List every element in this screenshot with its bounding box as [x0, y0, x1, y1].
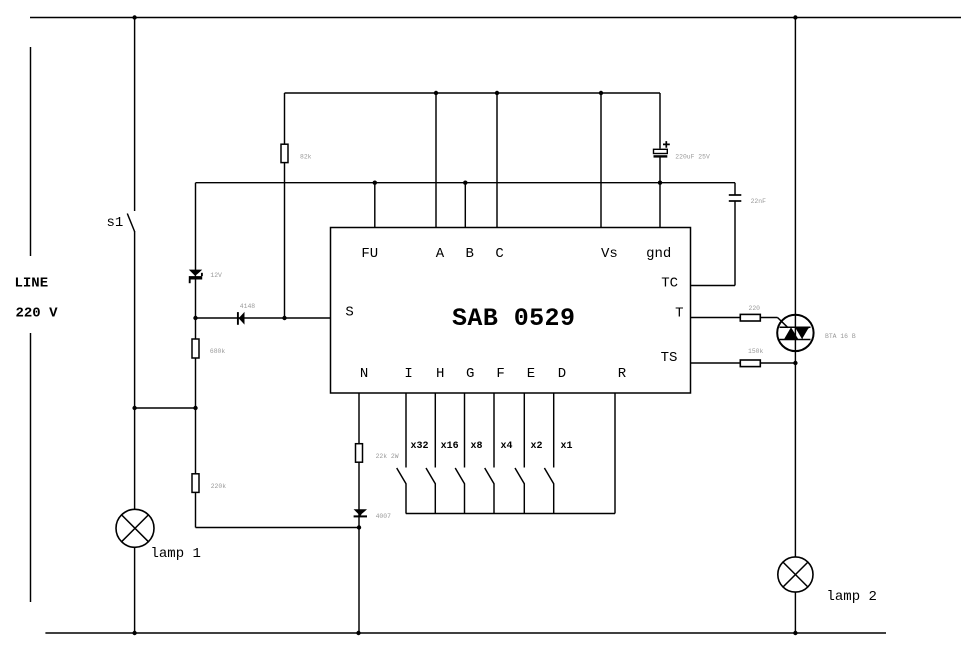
switch x16 blade [426, 468, 435, 514]
node A top [434, 91, 438, 95]
zener diode 12V triangle [189, 270, 202, 277]
node TS triac [793, 361, 797, 365]
diode 4148 bar [237, 312, 239, 325]
wire N pin chain [358, 393, 360, 633]
svg-text:x32: x32 [411, 441, 429, 452]
switch x1 blade [544, 468, 553, 514]
svg-text:22nF: 22nF [751, 198, 767, 205]
node bottom lamp1 [132, 631, 136, 635]
wire TC pin [691, 285, 736, 287]
resistor 22k 2W [356, 444, 363, 463]
svg-text:x16: x16 [441, 441, 459, 452]
wire pin R stub [614, 393, 616, 514]
lamp 1 circle [116, 509, 154, 547]
wire pin F stub [493, 393, 495, 468]
svg-text:I: I [404, 366, 412, 382]
node top rail s1 [132, 15, 136, 19]
wire switch bus [406, 513, 615, 515]
wire node junction 408 [135, 407, 196, 409]
op-amp U1 SAB 0529 box [331, 228, 691, 394]
wire pin B [464, 183, 466, 228]
wire 22nF top lead [734, 183, 736, 195]
resistor 82k [281, 144, 288, 162]
svg-text:TC: TC [661, 275, 678, 291]
svg-text:R: R [618, 366, 627, 382]
wire 220k to diode bus [196, 527, 360, 529]
svg-text:SAB 0529: SAB 0529 [452, 304, 575, 333]
svg-text:82k: 82k [300, 153, 312, 160]
wire right branch lower [794, 592, 796, 633]
svg-text:gnd: gnd [646, 246, 671, 262]
wire mid rail [196, 182, 736, 184]
svg-text:E: E [527, 366, 535, 382]
capacitor 22nF bottom plate [729, 200, 742, 202]
node top rail right [793, 15, 797, 19]
node 680k 408 [193, 406, 197, 410]
node C top [495, 91, 499, 95]
node Vs top [599, 91, 603, 95]
wire pin FU [374, 183, 376, 228]
wire pin I stub [405, 393, 407, 468]
svg-text:G: G [466, 366, 474, 382]
svg-text:680k: 680k [210, 348, 226, 355]
lamp 2 circle [778, 557, 813, 592]
capacitor 220uF 25V bottom plate [654, 155, 668, 157]
wire 680k 220k chain [195, 318, 197, 528]
svg-text:TS: TS [661, 350, 678, 366]
wire top rail [30, 17, 961, 19]
svg-text:220uF 25V: 220uF 25V [675, 153, 710, 160]
svg-text:12V: 12V [210, 272, 222, 279]
resistor 150k [740, 360, 760, 367]
wire cap 220uF bottom lead / gnd pin [659, 157, 661, 228]
svg-text:x2: x2 [531, 441, 543, 452]
wire pin Vs [600, 93, 602, 228]
wire line-symbol lower segment [30, 333, 32, 602]
svg-text:C: C [495, 246, 503, 262]
svg-text:4007: 4007 [376, 513, 392, 520]
wire line-symbol upper segment [30, 47, 32, 256]
capacitor 220uF 25V plus sign [663, 141, 670, 148]
node B mid [463, 181, 467, 185]
svg-text:x1: x1 [561, 441, 573, 452]
node bottom 4007 [356, 631, 360, 635]
svg-text:Vs: Vs [601, 246, 618, 262]
switch x2 blade [515, 468, 524, 514]
svg-text:S: S [345, 305, 353, 321]
svg-text:B: B [465, 246, 473, 262]
wire 22nF bottom lead [734, 202, 736, 286]
wire pin E stub [523, 393, 525, 468]
wire upper sub rail [285, 92, 661, 94]
node 82k S [282, 316, 286, 320]
wire 82k branch [284, 93, 286, 318]
svg-text:F: F [496, 366, 504, 382]
switch x32 blade [397, 468, 406, 514]
svg-text:x8: x8 [471, 441, 483, 452]
lamp 1 cross [122, 515, 149, 542]
wire bottom rail [45, 632, 886, 634]
switch s1 blade [127, 214, 134, 232]
wire T pin [691, 317, 778, 319]
svg-text:lamp 2: lamp 2 [827, 589, 877, 605]
wire s1 branch lower [134, 231, 136, 408]
wire lamp1 upper lead [134, 408, 136, 510]
svg-text:FU: FU [361, 246, 378, 262]
wire s1 branch upper [134, 18, 136, 212]
switch x8 blade [455, 468, 464, 514]
wire TS pin [691, 362, 796, 364]
capacitor 220uF 25V top plate [654, 149, 668, 153]
svg-text:T: T [675, 305, 683, 321]
resistor 220 [740, 314, 760, 321]
svg-text:A: A [436, 246, 445, 262]
resistor 220k [192, 474, 199, 493]
node 4007 junction [357, 525, 361, 529]
svg-text:N: N [360, 366, 368, 382]
wire cap 220uF top lead [659, 93, 661, 149]
wire zener branch [195, 183, 197, 318]
node gnd mid [658, 181, 662, 185]
svg-text:H: H [436, 366, 444, 382]
wire pin C [496, 93, 498, 228]
wire triac gate diagonal [778, 318, 789, 328]
node bottom lamp2 [793, 631, 797, 635]
triac Q1 top bar [780, 326, 811, 328]
svg-text:4148: 4148 [240, 303, 256, 310]
triac Q1 bottom bar [780, 339, 811, 341]
svg-text:lamp 1: lamp 1 [151, 546, 201, 562]
svg-text:220: 220 [749, 305, 761, 312]
node zener S [193, 316, 197, 320]
resistor 680k [192, 339, 199, 358]
wire S pin [196, 317, 331, 319]
svg-text:D: D [558, 366, 566, 382]
lamp 2 cross [783, 562, 808, 587]
zener diode 12V bar [189, 273, 202, 283]
wire pin D stub [553, 393, 555, 468]
wire pin A [435, 93, 437, 228]
capacitor 22nF top plate [729, 194, 742, 196]
svg-text:s1: s1 [107, 215, 124, 231]
node FU mid [373, 181, 377, 185]
svg-text:BTA 16 B: BTA 16 B [825, 333, 856, 340]
triac Q1 right triangle [795, 327, 810, 339]
diode 4148 triangle [239, 312, 245, 325]
svg-text:22k 2W: 22k 2W [376, 453, 399, 460]
svg-text:x4: x4 [501, 441, 513, 452]
wire pin G stub [464, 393, 466, 468]
wire pin H stub [434, 393, 436, 468]
diode 4007 bar [354, 515, 367, 517]
wire lamp1 lower lead [134, 547, 136, 633]
node s1 408 [132, 406, 136, 410]
svg-text:220 V: 220 V [16, 306, 59, 322]
switch x4 blade [485, 468, 494, 514]
diode 4007 triangle [354, 509, 367, 516]
svg-text:LINE: LINE [15, 276, 49, 292]
svg-text:150k: 150k [748, 348, 764, 355]
svg-text:220k: 220k [211, 483, 227, 490]
triac Q1 circle [777, 315, 813, 351]
triac Q1 left triangle [784, 327, 799, 339]
wire right branch upper [794, 18, 796, 557]
